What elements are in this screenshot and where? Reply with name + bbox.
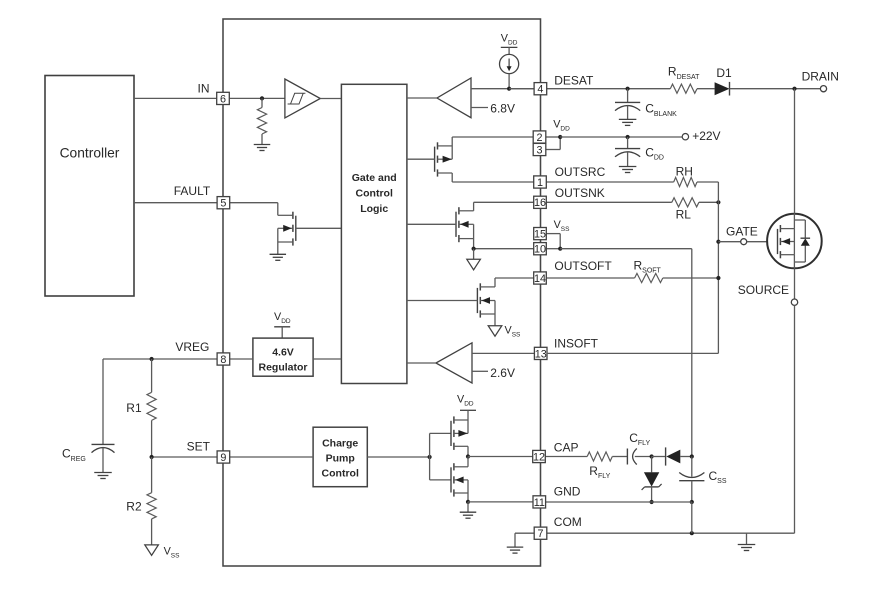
svg-text:1: 1 xyxy=(537,177,543,189)
svg-text:10: 10 xyxy=(534,244,546,256)
svg-text:16: 16 xyxy=(534,197,546,209)
svg-text:SET: SET xyxy=(187,439,211,453)
svg-text:R1: R1 xyxy=(126,401,142,415)
svg-text:12: 12 xyxy=(533,451,545,463)
svg-text:RL: RL xyxy=(676,207,692,221)
svg-text:R2: R2 xyxy=(126,499,142,513)
svg-text:RH: RH xyxy=(676,164,693,178)
svg-text:COM: COM xyxy=(554,515,582,529)
svg-text:Control: Control xyxy=(356,188,393,200)
svg-text:D1: D1 xyxy=(716,66,732,80)
svg-text:FAULT: FAULT xyxy=(174,184,211,198)
svg-text:3: 3 xyxy=(536,144,542,156)
svg-text:2: 2 xyxy=(536,132,542,144)
svg-text:DRAIN: DRAIN xyxy=(802,70,839,84)
svg-text:Charge: Charge xyxy=(322,437,358,449)
svg-text:Controller: Controller xyxy=(60,146,120,161)
svg-text:Logic: Logic xyxy=(360,203,388,215)
svg-text:2.6V: 2.6V xyxy=(490,366,515,380)
svg-text:11: 11 xyxy=(534,497,545,509)
svg-text:INSOFT: INSOFT xyxy=(554,337,599,351)
svg-text:4.6V: 4.6V xyxy=(272,346,294,358)
svg-text:IN: IN xyxy=(198,81,210,95)
svg-text:OUTSRC: OUTSRC xyxy=(555,165,606,179)
svg-text:6: 6 xyxy=(220,93,226,105)
svg-text:4: 4 xyxy=(537,84,543,96)
svg-text:Control: Control xyxy=(322,467,359,479)
svg-text:Pump: Pump xyxy=(326,452,355,464)
svg-text:DESAT: DESAT xyxy=(554,73,594,87)
svg-text:VREG: VREG xyxy=(175,340,209,354)
svg-text:GATE: GATE xyxy=(726,225,758,239)
svg-text:8: 8 xyxy=(220,354,226,366)
svg-text:6.8V: 6.8V xyxy=(490,101,515,115)
svg-text:OUTSNK: OUTSNK xyxy=(555,186,605,200)
svg-text:Gate and: Gate and xyxy=(352,172,397,184)
svg-text:13: 13 xyxy=(535,348,547,360)
svg-text:15: 15 xyxy=(534,229,546,241)
svg-text:CAP: CAP xyxy=(554,441,579,455)
svg-text:SOURCE: SOURCE xyxy=(738,283,789,297)
svg-text:5: 5 xyxy=(220,198,226,210)
svg-text:+22V: +22V xyxy=(692,129,720,143)
svg-text:GND: GND xyxy=(554,485,581,499)
svg-text:14: 14 xyxy=(534,273,546,285)
svg-text:9: 9 xyxy=(220,452,226,464)
svg-text:OUTSOFT: OUTSOFT xyxy=(554,259,612,273)
svg-text:Regulator: Regulator xyxy=(258,361,307,373)
svg-text:7: 7 xyxy=(537,528,543,540)
